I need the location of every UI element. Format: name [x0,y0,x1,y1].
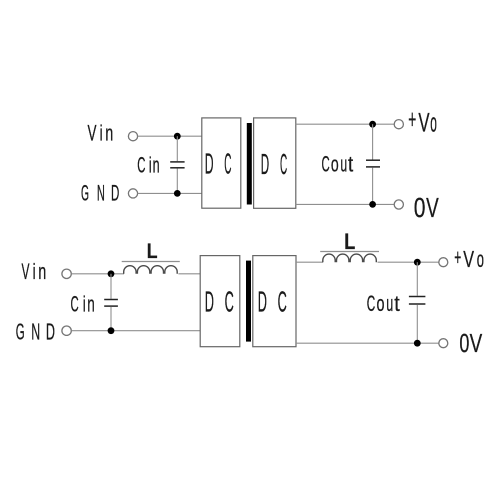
wire U4 to 0V terminal [296,342,439,344]
svg-text:D: D [205,148,214,180]
svg-text:V: V [426,192,439,223]
label Cin (bottom circuit) [71,292,95,317]
svg-text:C: C [278,286,287,318]
junction dot top output rail [369,121,376,128]
label Vin (bottom circuit input) [22,259,47,284]
svg-text:N: N [31,319,40,345]
svg-text:L: L [344,229,355,254]
svg-text:V: V [418,108,429,138]
wire Vin to DC box U1 [138,135,202,137]
svg-text:C: C [367,291,376,316]
label +Vo (top circuit) [408,104,437,137]
label DC inside U4 [258,286,287,318]
inductor L (bottom circuit output filter) coil [323,254,377,262]
svg-text:C: C [71,292,79,317]
terminal GND bottom (open circle) [62,326,71,335]
capacitor Cout (bottom) plates [409,297,426,305]
svg-text:n: n [153,152,160,177]
capacitor Cout (bottom circuit) lead upper [416,262,418,296]
svg-text:n: n [38,259,46,284]
svg-text:N: N [97,180,105,205]
svg-text:n: n [87,292,95,317]
terminal Vin bottom (open circle) [62,269,71,278]
junction dot bottom output rail [369,201,376,208]
svg-text:D: D [205,286,214,318]
svg-text:G: G [16,319,25,345]
capacitor Cout (top circuit) lead upper [372,124,374,159]
inductor L output overline (core) [320,251,379,253]
svg-text:C: C [225,286,234,318]
DC converter block U2 (secondary side) [254,118,296,208]
label GND (top circuit input) [81,180,119,205]
svg-text:0: 0 [414,192,426,223]
svg-text:o: o [331,152,339,177]
label Cin (top circuit) [137,152,159,177]
svg-text:V: V [470,328,483,358]
wire U4 to output inductor [296,261,323,263]
capacitor Cout lead lower [372,168,374,205]
svg-text:i: i [149,152,152,177]
wire GND to DC box U3 [72,330,201,332]
svg-text:+: + [408,104,416,134]
svg-text:t: t [348,152,353,177]
DC converter block U1 (primary side) [202,118,241,208]
label 0V (bottom circuit) [459,328,482,358]
DC converter block U3 (primary side, bottom circuit) [200,256,240,347]
terminal +Vo (open circle) [394,120,403,129]
DC converter block U4 (secondary side, bottom circuit) [253,256,296,347]
junction dot bottom input rail [174,190,181,197]
svg-text:D: D [261,149,269,181]
label DC inside U3 [205,286,234,318]
svg-text:+: + [454,244,461,270]
capacitor Cin (bottom) plates [104,300,118,307]
terminal 0V bottom (open circle) [439,339,448,348]
label Cout (bottom circuit) [367,291,400,316]
svg-text:i: i [33,259,36,284]
svg-text:D: D [111,180,119,205]
svg-text:o: o [430,108,437,138]
svg-text:o: o [477,246,484,272]
wire Vin to inductor L [72,273,124,275]
svg-text:V: V [463,246,474,272]
transformer core bar (top circuit) [247,123,252,205]
svg-text:C: C [280,149,287,181]
svg-text:G: G [81,180,89,205]
junction dot bottom-circuit top output rail [414,259,421,266]
svg-text:u: u [340,152,347,177]
svg-text:L: L [147,240,158,263]
capacitor Cout (bottom) lead lower [416,305,418,344]
svg-text:C: C [224,148,231,180]
terminal +Vo bottom (open circle) [439,258,448,267]
capacitor Cin plates [170,162,184,168]
svg-text:i: i [83,292,86,317]
capacitor Cout plates [366,160,380,167]
terminal GND (open circle) [128,189,137,198]
label Vin (top circuit input) [88,121,114,146]
label Cout (top circuit) [322,152,354,177]
svg-text:D: D [46,319,55,345]
wire inductor to +Vo terminal [378,261,439,263]
capacitor Cin (bottom circuit) lead upper [110,274,112,299]
wire GND to DC box U1 [138,192,202,194]
junction dot bottom-circuit bottom output rail [414,340,421,347]
transformer core bar (bottom circuit) [246,261,251,342]
svg-text:D: D [258,286,267,318]
svg-text:0: 0 [459,328,469,358]
svg-text:o: o [377,291,385,316]
svg-text:C: C [137,152,145,177]
capacitor Cin lead lower [176,169,178,194]
junction dot top input rail [174,133,181,140]
junction dot bottom-circuit bottom input rail [108,327,115,334]
terminal Vin (open circle) [128,132,137,141]
svg-text:V: V [88,121,97,146]
wire U2 to 0V terminal [296,203,395,205]
label +Vo (bottom circuit) [454,244,484,272]
junction dot bottom-circuit top input rail [108,270,115,277]
label GND (bottom circuit input) [16,319,55,345]
svg-text:i: i [100,121,103,146]
svg-text:n: n [105,121,113,146]
wire inductor to DC box U3 [178,273,200,275]
svg-text:V: V [22,259,30,284]
capacitor Cin (bottom) lead lower [110,307,112,331]
terminal 0V (open circle) [394,200,403,209]
capacitor Cin (top circuit) lead upper [176,136,178,161]
label DC inside U2 [261,149,287,181]
label DC inside U1 [205,148,232,180]
wire U2 to +Vo terminal [296,123,395,125]
inductor L (bottom circuit input filter) coil [124,266,178,274]
inductor L overline (core) [122,261,180,263]
label 0V (top circuit) [414,192,439,223]
svg-text:C: C [322,152,330,177]
svg-text:u: u [386,291,393,316]
svg-text:t: t [394,291,400,316]
